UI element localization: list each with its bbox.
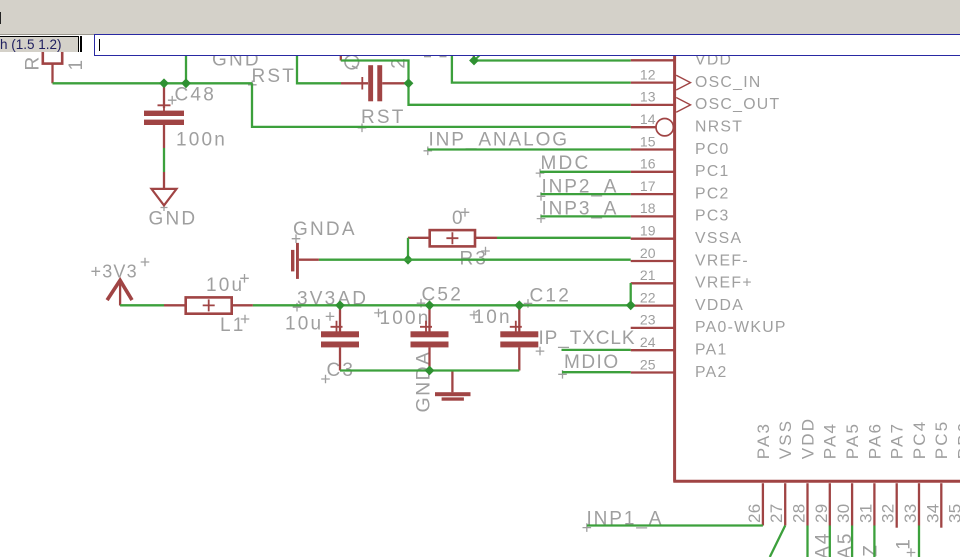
- svg-text:PA6: PA6: [865, 422, 884, 459]
- pin 30 PA5 (bottom): [851, 483, 853, 525]
- separator line: [80, 36, 81, 52]
- capacitor C? (OSC area): [341, 82, 368, 84]
- svg-text:31: 31: [856, 503, 875, 523]
- supply +3V3 symbol: [119, 282, 121, 306]
- svg-text:23: 23: [640, 312, 656, 328]
- svg-text:26: 26: [745, 503, 764, 523]
- op-amp U1 (microcontroller) outline: [673, 54, 960, 482]
- svg-text:35: 35: [946, 503, 960, 523]
- svg-text:MDIO: MDIO: [564, 352, 620, 373]
- pin 17 PC2: [631, 193, 674, 195]
- svg-text:25: 25: [640, 356, 656, 372]
- ground GND symbol: [163, 172, 165, 188]
- pin 19 VSSA: [631, 238, 674, 240]
- svg-text:14: 14: [640, 111, 656, 127]
- wire caps bottom rail: [340, 369, 519, 371]
- wire RST net to pin 14: [252, 83, 631, 127]
- svg-text:NRST: NRST: [695, 119, 743, 136]
- svg-text:32: 32: [879, 503, 898, 523]
- svg-text:10u: 10u: [206, 275, 244, 296]
- svg-text:100n: 100n: [176, 130, 227, 151]
- svg-text:RST: RST: [252, 66, 297, 87]
- wire MDIO to pin 25: [562, 371, 631, 373]
- junction VDD net: [469, 56, 479, 66]
- wire stub (red) above osc corner: [340, 54, 342, 61]
- svg-text:100n: 100n: [380, 308, 431, 329]
- svg-text:21: 21: [640, 267, 656, 283]
- wire R3 down to GNDA net: [407, 238, 409, 260]
- svg-text:PA7: PA7: [888, 422, 907, 459]
- svg-text:24: 24: [640, 334, 656, 350]
- wire INP2_A to pin 17: [541, 193, 631, 195]
- wire OSC_OUT net to pin 13: [341, 61, 631, 105]
- wire R3 to pin 19 VSSA: [497, 237, 631, 239]
- svg-text:PA5: PA5: [843, 422, 862, 459]
- wire stub (red) above pin-11 junction: [473, 54, 475, 60]
- svg-text:VDDA: VDDA: [695, 297, 744, 314]
- clipped label bits: [424, 55, 431, 57]
- wire below pin 31: [873, 526, 875, 557]
- svg-text:PC5: PC5: [932, 420, 951, 460]
- pin 20 VREF-: [631, 260, 674, 262]
- junction C3 top: [335, 300, 345, 310]
- svg-text:IP_TXCLK: IP_TXCLK: [539, 328, 636, 349]
- pin 25 PA2: [631, 371, 674, 373]
- svg-text:0: 0: [452, 208, 465, 229]
- svg-text:34: 34: [923, 503, 942, 523]
- wire GNDA net to pin 20 VREF-: [319, 259, 631, 261]
- svg-text:20: 20: [640, 245, 656, 261]
- svg-text:22: 22: [640, 289, 656, 305]
- text cursor: [99, 39, 100, 52]
- wire IP_TXCLK to pin 24: [562, 349, 631, 351]
- pin 34 PC5 (bottom): [940, 483, 942, 528]
- resistor R? (clipped by toolbar): [43, 46, 62, 64]
- svg-text:C48: C48: [175, 85, 216, 106]
- pin 24 PA1: [631, 349, 674, 351]
- svg-text:VSS: VSS: [776, 419, 795, 460]
- svg-text:L1: L1: [220, 315, 246, 336]
- svg-text:PC2: PC2: [695, 185, 730, 202]
- wire diagonal below pin 27: [770, 526, 785, 557]
- capacitor C48: [163, 83, 165, 108]
- svg-text:PC3: PC3: [695, 208, 730, 225]
- junction VDDA at pin 22: [626, 300, 636, 310]
- pin 23 PA0-WKUP: [631, 327, 674, 329]
- svg-text:10u: 10u: [285, 314, 323, 335]
- svg-text:10n: 10n: [474, 307, 512, 328]
- label Q? (rotated, clipped): [345, 55, 359, 69]
- pin 11 VDD: [631, 59, 674, 61]
- status cell 'h (1.5 1.2)': [0, 36, 79, 52]
- wire INP3_A to pin 18: [541, 215, 631, 217]
- wire below pin 28: [806, 526, 808, 557]
- pin 14 NRST: [631, 126, 656, 128]
- pin 26 PA3 (bottom): [762, 483, 764, 525]
- svg-text:INP_ANALOG: INP_ANALOG: [429, 130, 569, 151]
- wire into cap C? left: [297, 54, 341, 83]
- svg-text:1: 1: [894, 537, 915, 550]
- svg-text:GNDA: GNDA: [293, 219, 357, 240]
- pin 29 PA4 (bottom): [829, 483, 831, 525]
- pin 21 VREF+: [631, 282, 674, 284]
- capacitor C52: [428, 305, 430, 331]
- wire OSC_IN to pin 12: [452, 54, 631, 83]
- pin 22 VDDA: [631, 304, 674, 306]
- svg-text:PC0: PC0: [695, 141, 730, 158]
- svg-text:PB0: PB0: [955, 421, 960, 460]
- svg-text:PA3: PA3: [754, 422, 773, 459]
- pin 33 PC4 (bottom): [918, 483, 920, 525]
- svg-text:17: 17: [640, 178, 656, 194]
- wire diagonal at pin-11 junction: [475, 54, 482, 61]
- junction caps bottom rail: [425, 366, 435, 376]
- svg-text:R: R: [23, 55, 44, 71]
- supply GNDA symbol (left): [296, 243, 299, 279]
- svg-text:2: 2: [389, 56, 410, 69]
- toolbar (gray bar): [0, 0, 960, 35]
- svg-text:PA4: PA4: [821, 422, 840, 459]
- pin 31 PA6 (bottom): [873, 483, 875, 525]
- white strip below toolbar: [0, 35, 960, 36]
- pin 12 OSC_IN: [631, 81, 674, 83]
- inductor L1: [164, 304, 186, 306]
- svg-text:VSSA: VSSA: [695, 230, 742, 247]
- pin 13 OSC_OUT: [631, 104, 674, 106]
- ground AGND symbol: [451, 371, 453, 393]
- wire below pin 29: [829, 526, 831, 557]
- svg-text:16: 16: [640, 156, 656, 172]
- svg-text:C12: C12: [530, 285, 571, 306]
- svg-text:18: 18: [640, 200, 656, 216]
- svg-text:30: 30: [834, 503, 853, 523]
- svg-text:27: 27: [767, 503, 786, 523]
- pin 18 PC3: [631, 215, 674, 217]
- capacitor C3: [339, 305, 341, 331]
- svg-text:VDD: VDD: [798, 417, 817, 460]
- toolbar icon sliver: [0, 12, 1, 24]
- svg-text:19: 19: [640, 223, 656, 239]
- wire vertical from toolbar: [185, 54, 187, 83]
- capacitor C12: [518, 305, 520, 331]
- svg-text:28: 28: [790, 503, 809, 523]
- svg-text:OSC_OUT: OSC_OUT: [695, 96, 780, 113]
- pin 16 PC1: [631, 171, 674, 173]
- svg-text:29: 29: [812, 503, 831, 523]
- wire below pin 30: [851, 526, 853, 557]
- command input box: [94, 34, 960, 56]
- wire C48 to GND: [163, 148, 165, 172]
- junction C52 top: [425, 300, 435, 310]
- svg-text:OSC_IN: OSC_IN: [695, 74, 762, 91]
- svg-text:PC4: PC4: [910, 420, 929, 460]
- resistor R3 (0 ohm): [408, 237, 430, 239]
- pin 28 VDD (bottom): [806, 483, 808, 525]
- svg-text:33: 33: [901, 503, 920, 523]
- pin 32 PA7 (bottom): [896, 483, 898, 528]
- wire top-left horizontal net: [53, 82, 253, 84]
- wire VDDA rail to pin 22: [253, 304, 631, 306]
- junction GNDA net: [403, 255, 413, 265]
- svg-text:GNDA: GNDA: [413, 351, 435, 413]
- wire +3V3 to L1: [120, 304, 164, 306]
- svg-text:VREF-: VREF-: [695, 252, 749, 269]
- svg-text:+3V3: +3V3: [91, 262, 138, 282]
- svg-text:GND: GND: [149, 209, 198, 230]
- svg-text:13: 13: [640, 89, 656, 105]
- wire INP_ANALOG to pin 15: [428, 148, 631, 150]
- svg-text:PA1: PA1: [695, 342, 728, 359]
- svg-text:15: 15: [640, 133, 656, 149]
- svg-text:PA0-WKUP: PA0-WKUP: [695, 319, 787, 336]
- svg-text:VREF+: VREF+: [695, 275, 753, 292]
- svg-text:RST: RST: [361, 107, 406, 128]
- svg-text:PA2: PA2: [695, 364, 728, 381]
- wire VDD to pin 11: [474, 59, 631, 61]
- pin 15 PC0: [631, 148, 674, 150]
- wire below pin 33: [918, 526, 920, 557]
- junction OSC cap: [404, 78, 414, 88]
- svg-text:1: 1: [66, 58, 87, 71]
- junction at C48 top: [159, 78, 169, 88]
- svg-text:12: 12: [640, 66, 656, 82]
- pin 27 VSS (bottom): [784, 483, 786, 525]
- junction left net: [181, 78, 191, 88]
- wire MDC to pin 16: [540, 171, 631, 173]
- junction C12 top: [514, 300, 524, 310]
- svg-text:PC1: PC1: [695, 163, 730, 180]
- wire INP1_A to pin 26: [587, 524, 763, 526]
- svg-text:Z: Z: [861, 543, 882, 557]
- wire VREF+ tie to VDDA: [630, 283, 632, 305]
